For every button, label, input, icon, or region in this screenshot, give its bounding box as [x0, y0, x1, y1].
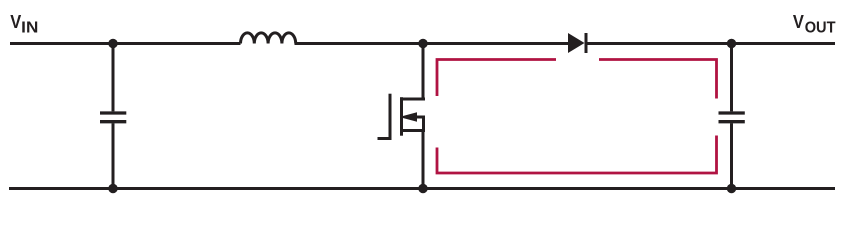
label VOUT [793, 11, 836, 36]
capacitor CIN: wire to ground rail [112, 123, 115, 188]
node: VIN junction top [108, 39, 117, 48]
node: VOUT junction top [727, 39, 736, 48]
transistor Q1 body arrow line [412, 117, 424, 131]
svg-text:V: V [793, 11, 805, 32]
node: ground junction left [108, 184, 117, 193]
diode D1 cathode bar [585, 33, 588, 53]
inductor L1 [241, 33, 296, 44]
transistor Q1 gate lead [378, 137, 391, 140]
diode D1 triangle [568, 33, 585, 53]
wire top rail: VIN to inductor [10, 42, 241, 45]
transistor Q1 gate bar [389, 94, 392, 140]
label VIN [10, 11, 38, 36]
capacitor COUT: wire to ground rail [730, 123, 733, 188]
transistor Q1 source wire to ground rail [402, 131, 426, 189]
transistor Q1 arrowhead [402, 112, 417, 121]
svg-text:OUT: OUT [805, 19, 836, 36]
hot loop lower U segment (output cap along ground back to MOSFET source) [437, 136, 717, 174]
hot loop upper-right corner segment (diode cathode to output cap) [599, 60, 717, 99]
transistor Q1 channel bar [400, 97, 403, 136]
wire bottom ground rail [9, 187, 835, 190]
capacitor COUT: wire from top rail [730, 44, 733, 112]
node: ground junction middle [418, 184, 427, 193]
node: switch node junction top [418, 39, 427, 48]
wire top rail: diode cathode to VOUT [586, 42, 836, 45]
node: ground junction right [727, 184, 736, 193]
capacitor CIN plates [100, 111, 126, 114]
wire top rail: inductor to diode anode [295, 42, 570, 45]
hot loop upper-left corner segment (MOSFET drain to diode anode) [437, 60, 556, 97]
transistor Q1 drain wire from switch node [402, 44, 426, 100]
capacitor COUT plates [719, 111, 745, 114]
capacitor CIN: wire from top rail [112, 44, 115, 112]
svg-text:IN: IN [21, 19, 38, 36]
svg-text:V: V [10, 11, 22, 32]
hot loop highlight (red rectangle) [437, 60, 717, 174]
transistor Q1 (N-channel MOSFET) body [378, 94, 424, 140]
